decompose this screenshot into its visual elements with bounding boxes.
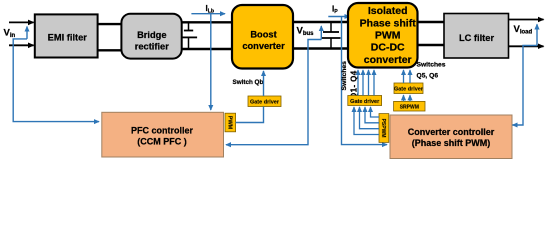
wire: bridge to boost rail top bbox=[182, 21, 232, 23]
block: PFC controller (CCM PFC) bbox=[102, 112, 224, 157]
svg-text:Vload: Vload bbox=[514, 24, 533, 36]
block: gate driver (Q1-Q4) bbox=[348, 96, 382, 106]
block: SRPWM bbox=[394, 101, 425, 111]
wire: Vbus sense to PFC controller right edge bbox=[226, 40, 321, 145]
wire: EMI to bridge rail bottom bbox=[98, 49, 122, 51]
wire: PSPWM to gate driver fan 3 bbox=[365, 107, 379, 123]
wire: PWM to gate driver (boost) bbox=[236, 107, 264, 123]
svg-text:Converter controller: Converter controller bbox=[408, 127, 495, 137]
svg-text:Switches: Switches bbox=[417, 62, 446, 69]
wire: IP current arrow (blue) bbox=[328, 16, 349, 18]
wire: Q1 drive up arrow bbox=[357, 70, 359, 96]
svg-text:PWM: PWM bbox=[375, 30, 401, 42]
wire: Vin sense to PFC controller bbox=[13, 39, 99, 122]
wire: ILb sense down to PFC controller bbox=[210, 14, 212, 110]
svg-text:Q1- Q4: Q1- Q4 bbox=[350, 70, 359, 99]
svg-text:SRPWM: SRPWM bbox=[400, 105, 419, 111]
wire: isolated to LC rail bottom bbox=[418, 44, 445, 46]
svg-text:PSPWM: PSPWM bbox=[380, 119, 386, 138]
wire: ILb current arrow (blue) bbox=[191, 13, 225, 15]
block: PSPWM (phase shift modulator) bbox=[379, 114, 389, 143]
wire: Q6 drive up arrow bbox=[409, 70, 411, 83]
svg-text:PWM: PWM bbox=[226, 116, 232, 130]
wire: SRPWM to gate driver (Q5) bbox=[403, 95, 405, 101]
capacitor C1 (rectifier output) bbox=[188, 22, 190, 49]
wire: boost to isolated rail bottom bbox=[293, 47, 349, 49]
wire: input line bottom with arrow into EMI filter bbox=[9, 44, 34, 46]
wire: Vin sense up arrow bbox=[26, 27, 28, 39]
svg-text:Boost: Boost bbox=[250, 29, 276, 39]
wire: bridge to boost rail bottom bbox=[182, 48, 232, 50]
svg-text:Q5, Q6: Q5, Q6 bbox=[417, 73, 439, 80]
wire: Q5 drive up arrow bbox=[403, 70, 405, 83]
wire: Vbus sense up arrow bbox=[320, 26, 322, 40]
wire: Vload sense up arrow bbox=[536, 24, 538, 45]
block: EMI filter bbox=[35, 14, 98, 57]
block: LC filter bbox=[444, 14, 509, 59]
svg-text:Vbus: Vbus bbox=[297, 26, 315, 38]
wire: SRPWM to gate driver (Q6) bbox=[409, 95, 411, 101]
wire: PSPWM to gate driver fan 4 bbox=[371, 107, 380, 117]
svg-text:Bridge: Bridge bbox=[137, 30, 166, 40]
svg-text:Switch Qb: Switch Qb bbox=[233, 79, 264, 86]
svg-text:Phase shift: Phase shift bbox=[360, 17, 417, 29]
block: gate driver (Q5,Q6) bbox=[394, 83, 423, 94]
svg-text:Gate driver: Gate driver bbox=[250, 100, 280, 106]
svg-text:EMI filter: EMI filter bbox=[48, 33, 88, 43]
wire: PSPWM to gate driver fan 2 bbox=[360, 107, 380, 129]
capacitor C2 (bus capacitor) bbox=[330, 22, 332, 49]
svg-text:DC-DC: DC-DC bbox=[371, 42, 405, 54]
wire: PSPWM to gate driver fan 1 bbox=[354, 107, 379, 135]
svg-text:converter: converter bbox=[242, 41, 285, 51]
block: gate driver (boost switch Qb) bbox=[248, 96, 281, 107]
svg-text:Gate driver: Gate driver bbox=[350, 99, 380, 105]
block: Boost converter bbox=[232, 5, 293, 69]
wire: output line bottom with arrow bbox=[509, 45, 544, 47]
wire: boost to isolated rail top bbox=[293, 21, 349, 23]
wire: IP sense down to converter controller bbox=[342, 17, 388, 145]
wire: EMI to bridge rail top bbox=[98, 23, 122, 25]
block: PWM (PFC modulator) bbox=[225, 113, 236, 132]
wire: input line top with arrow into EMI filter bbox=[9, 21, 34, 23]
svg-text:ILb: ILb bbox=[206, 4, 215, 14]
svg-text:PFC controller: PFC controller bbox=[131, 125, 194, 135]
svg-text:converter: converter bbox=[364, 54, 412, 66]
svg-text:IP: IP bbox=[332, 5, 338, 15]
svg-text:(CCM PFC ): (CCM PFC ) bbox=[137, 137, 187, 147]
wire: Q3 drive up arrow bbox=[368, 70, 370, 96]
svg-text:LC filter: LC filter bbox=[459, 33, 495, 43]
svg-text:Isolated: Isolated bbox=[368, 5, 408, 17]
block: Isolated Phase shift PWM DC-DC converter bbox=[348, 3, 418, 68]
block: Bridge rectifier bbox=[121, 14, 181, 59]
svg-text:(Phase shift PWM): (Phase shift PWM) bbox=[412, 138, 491, 148]
block: Converter controller (Phase shift PWM) bbox=[390, 115, 512, 159]
wire: gate driver to boost switch with up arrow bbox=[263, 71, 265, 96]
svg-text:Vin: Vin bbox=[4, 28, 16, 40]
wire: output line top with arrow bbox=[509, 19, 544, 21]
wire: Vload sense to converter controller right edge bbox=[513, 46, 538, 126]
wire: Q4 drive up arrow bbox=[373, 70, 375, 96]
svg-text:Gate driver: Gate driver bbox=[394, 87, 424, 93]
wire: isolated to LC rail top bbox=[418, 21, 445, 23]
svg-text:Switches: Switches bbox=[341, 61, 348, 91]
wire: Q2 drive up arrow bbox=[362, 70, 364, 96]
svg-text:rectifier: rectifier bbox=[135, 41, 169, 51]
